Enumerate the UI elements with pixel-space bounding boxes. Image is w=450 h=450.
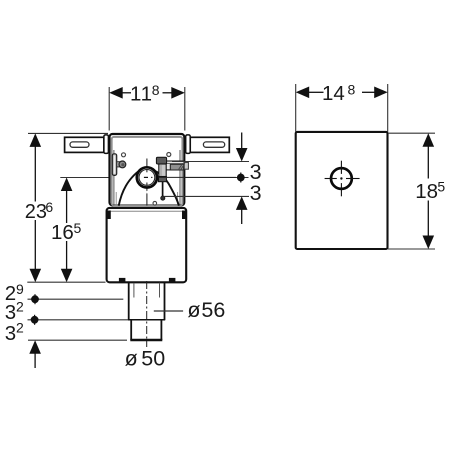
svg-text:ø50: ø50 [125,347,166,371]
svg-text:23: 23 [25,201,47,223]
right mounting bracket [186,135,230,154]
svg-text:6: 6 [45,199,53,215]
leader line 3 upper right [172,161,249,163]
svg-text:16: 16 [51,221,74,244]
arrow up bottom left [29,340,41,368]
svg-text:3: 3 [5,301,16,324]
label 29 [5,281,24,305]
svg-text:5: 5 [74,220,82,236]
extension line left for 236 [28,132,108,134]
circle vertical centerline [146,159,148,206]
dimension 3 lower right: dot on centerline [237,173,262,206]
leader ø56 [154,310,183,312]
dimension 185 right [415,133,445,249]
dimension 148 top [296,81,388,131]
centerline over valve [159,176,236,178]
pipe centerline [146,281,148,347]
cistern body outer [110,134,185,205]
arrow up for lower 3 [236,196,248,224]
svg-text:14: 14 [322,82,345,105]
left angle fitting [112,154,126,176]
svg-text:8: 8 [348,81,356,97]
actuator plate [296,132,388,249]
plate circle with crosshair [325,161,360,197]
left line pipe end [28,339,127,341]
dimension 165 left [51,178,82,283]
left mounting bracket [65,135,109,154]
svg-text:8: 8 [152,82,160,98]
svg-text:3: 3 [250,181,262,205]
flush bend dome [119,169,179,205]
leader line 3 lower right [164,195,249,197]
fill valve [156,157,188,200]
svg-text:18: 18 [415,180,438,203]
svg-text:3: 3 [5,322,16,345]
screw hole left [122,153,126,157]
screw hole right [167,153,171,157]
dimension 118 top [109,82,185,130]
dimension 236 left [25,133,54,282]
left line body bottom [27,281,105,283]
outlet pipe ø50 [130,320,162,340]
protection box (lower) [107,208,187,282]
step ø56 to ø50 [128,319,165,321]
hole at bottom of cistern [153,201,157,205]
left line step (dot 2) [28,315,129,325]
dimension 3 upper right: arrow down [236,133,262,185]
svg-text:2: 2 [16,298,24,314]
label 32 lower [5,319,24,345]
extension lines 185 [388,132,435,134]
label 32 upper [5,298,24,324]
svg-text:11: 11 [130,83,153,106]
svg-text:5: 5 [437,178,445,194]
svg-text:ø56: ø56 [187,298,225,322]
left line joint (dot 1) [28,294,124,304]
supply connection circle [137,167,157,193]
outlet pipe ø56 [129,282,165,320]
svg-text:9: 9 [16,281,24,297]
svg-text:2: 2 [16,319,24,335]
extension line for 165 (circle centerline, long) [60,177,248,179]
